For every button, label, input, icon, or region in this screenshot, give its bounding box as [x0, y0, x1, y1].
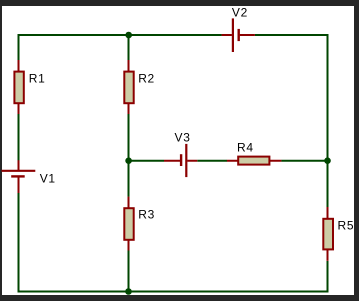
resistor R3 pins [128, 197, 130, 251]
svg-text:R1: R1 [29, 72, 46, 86]
wire left side: V1 bottom to bottom-left corner to middle node [19, 193, 129, 292]
svg-text:R3: R3 [138, 208, 155, 222]
battery V2 short plate [237, 29, 239, 41]
junction node bottom (R3/bottom wire) [125, 288, 132, 295]
svg-text:R4: R4 [237, 140, 254, 154]
battery V2 pins [222, 34, 255, 36]
wire middle row: R4 right pin to right node [281, 160, 327, 162]
resistor R5 [323, 219, 333, 250]
battery V3 long plate [185, 144, 187, 177]
battery V1 pins [18, 160, 20, 193]
svg-text:R2: R2 [138, 71, 155, 85]
wire middle row: node to V3 left pin [129, 160, 165, 162]
wire middle branch: R3 bottom to bottom node [128, 250, 130, 292]
resistor R5 pins [327, 207, 329, 261]
wire middle branch: R2 bottom to middle node [128, 114, 130, 161]
wire bottom: middle node to bottom-right corner up to R5 [129, 261, 328, 292]
resistor R2 [124, 72, 133, 104]
junction node right (R4/right wire) [324, 157, 331, 164]
svg-text:R5: R5 [338, 219, 355, 233]
wire middle row: V3 right pin to R4 left pin [197, 160, 227, 162]
wire middle branch: middle node down to R3 [128, 161, 130, 197]
battery V1 long plate [2, 170, 36, 172]
wire middle branch: top node down to R2 [128, 35, 130, 60]
resistor R3 [124, 208, 133, 240]
battery V2 long plate [232, 18, 234, 52]
resistor R1 [14, 72, 23, 104]
battery V3 pins [164, 160, 197, 162]
svg-text:V3: V3 [175, 130, 191, 144]
resistor R1 pins [18, 60, 20, 114]
svg-text:V1: V1 [40, 172, 56, 186]
svg-text:V2: V2 [232, 5, 248, 19]
resistor R4 [238, 157, 269, 165]
junction node top (R2/top wire) [125, 32, 132, 39]
resistor R4 pins [227, 160, 282, 162]
junction node middle (R2/R3/V3) [125, 157, 132, 164]
wire V2 right pin to top-right corner down right side [255, 35, 328, 207]
wire left side: R1 bottom to V1 top [18, 114, 20, 161]
wire top-left to V2 left pin [19, 35, 222, 60]
resistor R2 pins [128, 60, 130, 114]
battery V1 short plate [11, 175, 25, 177]
battery V3 short plate [180, 154, 182, 166]
